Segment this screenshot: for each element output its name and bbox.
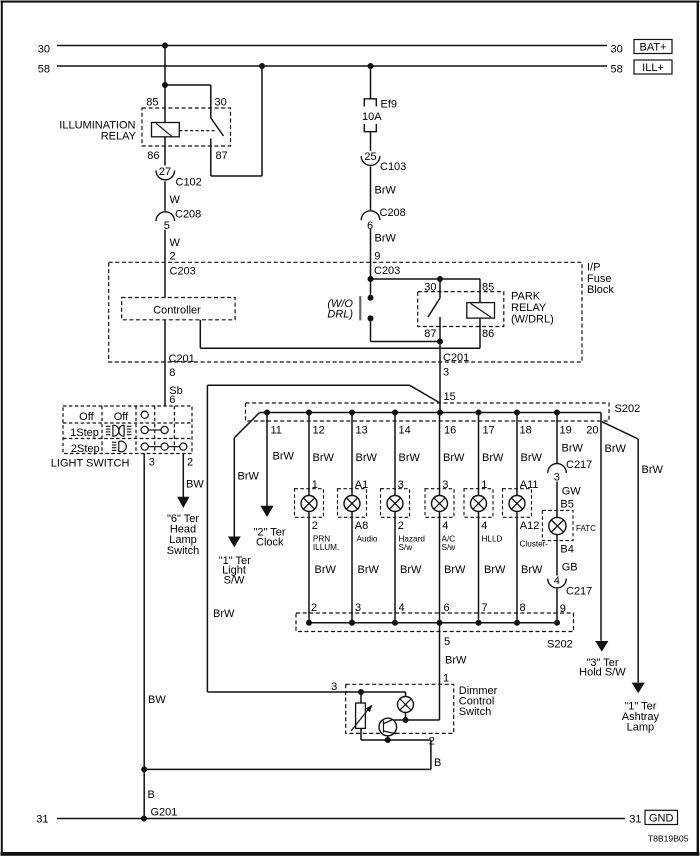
node park relay 30 <box>437 276 443 282</box>
wire bus to lamp at x352 <box>351 413 353 496</box>
svg-text:20: 20 <box>586 424 598 436</box>
wire dimmer 2 to ground bus <box>144 740 431 769</box>
wire color BW term2 <box>186 479 204 491</box>
wire color BrW clock <box>273 451 295 463</box>
svg-text:BrW: BrW <box>399 452 421 464</box>
svg-text:BW: BW <box>186 479 204 491</box>
arrow to ashtray lamp <box>632 683 645 694</box>
svg-text:4: 4 <box>554 575 560 587</box>
wire net 31 GND <box>57 818 625 820</box>
label Off row1 col2 <box>114 411 129 423</box>
svg-text:BrW: BrW <box>315 564 337 576</box>
wire color BrW col x309 <box>313 452 335 464</box>
svg-text:A/C: A/C <box>442 534 456 543</box>
svg-text:Switch: Switch <box>459 706 491 718</box>
wire color BrW col x478.5 <box>482 452 504 464</box>
label 2 Ter Clock <box>253 527 285 549</box>
wire lamp to bottom bus x517 <box>516 511 518 622</box>
node dimmer 3 <box>358 689 364 695</box>
lamp name Cluster- col x517 <box>520 539 549 548</box>
svg-text:14: 14 <box>399 424 411 436</box>
svg-text:2: 2 <box>311 602 317 614</box>
svg-text:I/P: I/P <box>587 261 600 273</box>
svg-text:A8: A8 <box>355 520 368 532</box>
relay contact lower terminal 87 <box>210 139 212 177</box>
wire lamp to node <box>405 713 407 721</box>
illumination lamp col x352 <box>344 496 360 512</box>
label 1 Ter Ashtray Lamp <box>622 701 660 734</box>
svg-text:LIGHT SWITCH: LIGHT SWITCH <box>51 457 130 469</box>
wire color BrW 2nd <box>375 233 397 245</box>
wire FATC to C217 lower <box>556 535 558 576</box>
svg-text:(W/DRL): (W/DRL) <box>511 314 554 326</box>
wire lamp to bottom bus x439.5 <box>439 511 441 622</box>
svg-text:BrW: BrW <box>642 464 664 476</box>
svg-text:GB: GB <box>562 562 578 574</box>
arrow to hold sw <box>595 641 608 652</box>
node relay branch split <box>162 82 168 88</box>
connector C103 pin 25 <box>361 151 406 173</box>
pin 6 label <box>169 394 175 406</box>
wire lamp to bottom bus x352 <box>351 511 353 622</box>
svg-text:13: 13 <box>356 424 368 436</box>
wire net 58 ILL+ <box>57 65 607 67</box>
svg-text:PRN: PRN <box>313 534 330 543</box>
svg-text:31: 31 <box>629 813 641 825</box>
pin 5 label <box>444 636 450 648</box>
pin 1 label <box>443 672 449 684</box>
bus junction dots <box>264 410 560 416</box>
wire C103 to C208 <box>370 167 372 211</box>
lamp box col x309 <box>295 489 324 518</box>
svg-text:3: 3 <box>331 681 337 693</box>
label 30 left <box>38 43 50 55</box>
label ILLUMINATION RELAY <box>59 120 136 143</box>
connector C217 pin 4 <box>548 575 593 597</box>
light switch box grid <box>63 406 192 454</box>
wire color BrW lower col x309 <box>315 564 337 576</box>
park pin 86 label <box>482 328 494 340</box>
svg-text:3: 3 <box>355 602 361 614</box>
pin label A1 col x352 <box>355 479 368 491</box>
pin label A12 col x517 <box>520 520 540 532</box>
svg-text:GW: GW <box>562 485 582 497</box>
svg-text:BrW: BrW <box>313 452 335 464</box>
wire color BrW lower col x439.5 <box>444 564 466 576</box>
wire lamp to bottom bus x395 <box>394 511 396 622</box>
svg-text:BrW: BrW <box>273 451 295 463</box>
svg-text:S/w: S/w <box>399 543 413 552</box>
svg-text:8: 8 <box>520 602 526 614</box>
svg-text:2: 2 <box>398 520 404 532</box>
lamp box col x478.5 <box>464 489 493 518</box>
pin label A8 col x352 <box>355 520 368 532</box>
svg-text:Lamp: Lamp <box>627 721 655 733</box>
wire color W 2nd <box>170 237 181 249</box>
arrow to clock <box>260 506 273 517</box>
illumination lamp col x439.5 <box>432 496 448 512</box>
pin B5 label <box>560 499 573 511</box>
wire 58 to fuse Ef9 <box>370 66 372 99</box>
svg-text:19: 19 <box>560 424 572 436</box>
pin 3 label dimmer <box>331 681 337 693</box>
label W/O DRL <box>327 298 353 321</box>
terminal box ILL+ <box>634 60 672 74</box>
wire pin20 to hold sw <box>600 413 602 641</box>
svg-text:BrW: BrW <box>444 564 466 576</box>
svg-text:30: 30 <box>38 43 50 55</box>
svg-text:C203: C203 <box>374 265 400 277</box>
svg-text:B5: B5 <box>560 499 573 511</box>
svg-text:5: 5 <box>444 636 450 648</box>
svg-text:B: B <box>434 757 441 769</box>
lamp name Hazard col x395 <box>399 534 426 552</box>
lamp box col x352 <box>338 489 367 518</box>
wire term2 BW <box>182 454 184 499</box>
wire color BrW col x517 <box>521 452 543 464</box>
svg-text:B4: B4 <box>560 543 573 555</box>
pin label 1 col x309 <box>312 479 318 491</box>
svg-text:BrW: BrW <box>356 452 378 464</box>
wire color BrW lower col x478.5 <box>484 564 506 576</box>
svg-text:4: 4 <box>442 520 448 532</box>
arrow to head lamp switch <box>177 497 189 508</box>
svg-text:C103: C103 <box>380 161 406 173</box>
svg-text:86: 86 <box>147 150 159 162</box>
contact row2 pair <box>141 426 168 433</box>
wire color BrW ashtray <box>642 464 664 476</box>
pin 9 label bottom <box>560 603 566 615</box>
label 2Step <box>71 443 100 455</box>
wire resistor bottom <box>361 728 431 740</box>
splice S202 bottom box <box>296 613 574 632</box>
svg-text:Block: Block <box>587 284 614 296</box>
wire dimmer feed to pin 15 node <box>207 385 440 692</box>
svg-text:BrW: BrW <box>482 452 504 464</box>
park relay contact 87 <box>439 317 441 342</box>
pin 2 label dimmer <box>429 736 435 748</box>
terminal 3 label <box>149 457 155 469</box>
connector C203 label left <box>170 265 196 277</box>
wire bus to lamp at x395 <box>394 413 396 496</box>
pin 85 label <box>146 97 158 109</box>
pin 86 label <box>147 150 159 162</box>
pin 9 label <box>374 251 380 263</box>
svg-text:8: 8 <box>169 367 175 379</box>
node 87 junction <box>437 339 443 345</box>
wire color BrW light sw <box>238 471 260 483</box>
icon parklamp 2Step <box>112 441 126 452</box>
terminal 2 label <box>187 457 193 469</box>
svg-text:BrW: BrW <box>358 564 380 576</box>
svg-text:S202: S202 <box>547 639 573 651</box>
svg-text:87: 87 <box>216 150 228 162</box>
lamp name PRN col x309 <box>313 534 339 552</box>
svg-text:BrW: BrW <box>213 608 235 620</box>
svg-text:30: 30 <box>611 43 623 55</box>
svg-text:BAT+: BAT+ <box>639 42 666 54</box>
drawing number T8B19B05 <box>648 833 689 843</box>
illumination lamp col x478.5 <box>471 496 487 512</box>
svg-text:RELAY: RELAY <box>511 302 547 314</box>
wire C217 to FATC <box>556 482 558 518</box>
contact row1 <box>141 411 148 418</box>
label I/P Fuse Block <box>587 261 614 296</box>
svg-text:Clock: Clock <box>256 536 284 548</box>
wire bus to lamp at x517 <box>516 413 518 496</box>
svg-text:BrW: BrW <box>443 452 465 464</box>
label 3 Ter Hold SW <box>579 657 626 679</box>
label Off row1 col1 <box>79 411 94 423</box>
wire bus to lamp at x439.5 <box>439 413 441 496</box>
svg-text:87: 87 <box>424 328 436 340</box>
connector C208 pin 5 <box>156 209 201 233</box>
svg-text:3: 3 <box>149 457 155 469</box>
pin 3 label <box>443 367 449 379</box>
svg-text:BrW: BrW <box>521 452 543 464</box>
icon headlamp 1Step <box>106 425 132 436</box>
park pin 85 label <box>482 282 494 294</box>
svg-text:C201: C201 <box>443 352 469 364</box>
fuse Ef9 <box>362 99 397 132</box>
pin label 3 col x439.5 <box>442 479 448 491</box>
pin label 4 col x478.5 <box>481 520 487 532</box>
wire color BrW dimmer <box>445 655 467 667</box>
svg-text:2: 2 <box>429 736 435 748</box>
svg-text:Off: Off <box>114 411 129 423</box>
wire W/O DRL to 87 node <box>371 341 441 343</box>
lamp name A/C col x439.5 <box>442 534 456 552</box>
wire color BrW col19 <box>562 442 584 454</box>
connector C201 left <box>169 353 195 365</box>
park relay contact blade <box>428 279 440 317</box>
svg-text:6: 6 <box>444 602 450 614</box>
svg-text:2: 2 <box>312 520 318 532</box>
label FATC <box>576 524 596 533</box>
ground G201 label <box>151 806 178 818</box>
svg-text:BrW: BrW <box>605 443 627 455</box>
pin 30 label <box>215 97 227 109</box>
wire C208 to C203 <box>370 229 372 279</box>
dimmer box <box>346 684 454 733</box>
label Dimmer Control Switch <box>459 685 498 718</box>
node on 58 at relay 87 branch <box>259 63 265 69</box>
wire pin1 corner <box>390 719 440 721</box>
label 58 left <box>38 64 50 76</box>
illumination lamp col x395 <box>387 496 403 512</box>
dimmer lamp <box>398 697 414 713</box>
lamp box col x439.5 <box>425 489 454 518</box>
svg-text:BrW: BrW <box>238 471 260 483</box>
lamp name Audio col x352 <box>357 534 378 543</box>
wire term3 BW to ground <box>143 454 145 819</box>
wire bus to lamp at x309 <box>308 413 310 496</box>
svg-text:Audio: Audio <box>357 534 378 543</box>
lamp name HLLD col x478.5 <box>482 534 503 543</box>
svg-text:30: 30 <box>215 97 227 109</box>
svg-text:12: 12 <box>313 424 325 436</box>
wire color GW <box>562 485 582 497</box>
svg-text:C201: C201 <box>169 353 195 365</box>
pin labels 11-20 <box>271 424 599 436</box>
wire to dimmer lamp <box>361 692 406 697</box>
ground node G201 <box>141 816 147 822</box>
wire color BrW lower col x395 <box>400 564 422 576</box>
wire color BrW lower col x352 <box>358 564 380 576</box>
relay contact blade <box>211 118 224 136</box>
label 58 right <box>611 64 623 76</box>
lamp box col x517 <box>503 489 532 518</box>
wire 30-line to relay coil 85 <box>164 46 166 123</box>
transistor Q1 <box>379 718 397 740</box>
bus S202 bottom line <box>307 622 557 624</box>
label 31 left <box>36 813 48 825</box>
svg-text:85: 85 <box>482 282 494 294</box>
svg-text:C102: C102 <box>176 177 202 189</box>
svg-text:BrW: BrW <box>375 185 397 197</box>
label S202 top <box>615 403 641 415</box>
svg-text:S/W: S/W <box>224 575 245 587</box>
svg-text:6: 6 <box>169 394 175 406</box>
svg-text:86: 86 <box>482 328 494 340</box>
node under lamp <box>403 717 409 723</box>
pin label 2 col x309 <box>312 520 318 532</box>
W/O DRL upper contact <box>368 279 374 301</box>
label Controller <box>153 305 201 317</box>
wire color BrW col x395 <box>399 452 421 464</box>
wire branch to relay contact 30 <box>165 85 211 118</box>
wire color BrW col x352 <box>356 452 378 464</box>
label 30 right <box>611 43 623 55</box>
wire C217 to S202 pin 9 <box>556 589 558 623</box>
svg-text:15: 15 <box>444 391 456 403</box>
svg-text:2: 2 <box>170 251 176 263</box>
FATC lamp <box>549 517 566 534</box>
node transistor emitter <box>385 737 391 743</box>
svg-text:58: 58 <box>611 64 623 76</box>
svg-text:BrW: BrW <box>562 442 584 454</box>
node C203 junction <box>368 276 374 282</box>
svg-text:Controller: Controller <box>153 305 201 317</box>
wire color B ground <box>148 789 155 801</box>
svg-text:Fuse: Fuse <box>587 273 611 285</box>
park pin 87 label <box>424 328 436 340</box>
lamp box col x395 <box>381 489 410 518</box>
svg-text:9: 9 <box>374 251 380 263</box>
node BW-B junction <box>141 766 147 772</box>
connector C217 pin 3 <box>548 459 593 483</box>
pin 87 label <box>216 150 228 162</box>
svg-text:4: 4 <box>399 602 405 614</box>
node on 58 at Ef9 branch <box>368 63 374 69</box>
svg-text:FATC: FATC <box>576 524 596 533</box>
splice S202 top box <box>246 403 610 421</box>
svg-text:ILL+: ILL+ <box>642 62 664 74</box>
svg-text:W: W <box>170 237 181 249</box>
pin label 3 col x395 <box>398 479 404 491</box>
wire color GB <box>562 562 578 574</box>
svg-text:4: 4 <box>481 520 487 532</box>
wire diag to light sw <box>234 413 259 537</box>
svg-text:BrW: BrW <box>521 564 543 576</box>
bus S202 top line <box>260 412 602 414</box>
pin label 4 col x439.5 <box>442 520 448 532</box>
svg-text:16: 16 <box>444 424 456 436</box>
arrow to light sw <box>228 537 241 548</box>
svg-text:Off: Off <box>79 411 94 423</box>
svg-text:2Step: 2Step <box>71 443 100 455</box>
label 1Step <box>70 427 99 439</box>
svg-text:G201: G201 <box>151 806 178 818</box>
svg-text:A12: A12 <box>520 520 540 532</box>
svg-text:C203: C203 <box>170 265 196 277</box>
pin 2 label <box>170 251 176 263</box>
wire C208 to controller <box>164 230 166 298</box>
svg-text:10A: 10A <box>362 111 382 123</box>
connector C201 right <box>443 352 469 364</box>
wire net 30 BAT+ <box>57 45 607 47</box>
label 1 Ter Light SW <box>219 555 251 587</box>
park relay box <box>418 292 504 327</box>
svg-text:C217: C217 <box>566 459 592 471</box>
svg-text:C217: C217 <box>566 585 592 597</box>
label S202 bottom <box>547 639 573 651</box>
svg-text:HLLD: HLLD <box>482 534 503 543</box>
svg-text:2: 2 <box>187 457 193 469</box>
wire color BrW col x439.5 <box>443 452 465 464</box>
svg-text:31: 31 <box>36 813 48 825</box>
connector C203 label right <box>374 265 400 277</box>
pin 8 label <box>169 367 175 379</box>
terminal box GND <box>645 810 678 824</box>
wire pin5 down <box>439 623 441 720</box>
wire coil 86 to controller <box>200 318 480 348</box>
svg-text:3: 3 <box>443 367 449 379</box>
wire color BrW <box>375 185 397 197</box>
svg-text:1: 1 <box>443 672 449 684</box>
illumination relay box <box>142 108 231 146</box>
wire lamp to bottom bus x309 <box>308 511 310 622</box>
FATC box <box>542 510 573 540</box>
svg-text:18: 18 <box>520 424 532 436</box>
svg-text:BrW: BrW <box>400 564 422 576</box>
W/O DRL lower contact <box>368 315 374 341</box>
svg-text:BrW: BrW <box>375 233 397 245</box>
bottom pin labels <box>311 602 526 614</box>
wire pin11 to clock <box>266 413 268 507</box>
svg-text:C208: C208 <box>380 207 406 219</box>
wire fuse to C103 <box>370 132 372 151</box>
bottom bus dots <box>306 620 560 626</box>
wire 87 to S202 pin 15 <box>439 342 441 413</box>
variable resistor R1 <box>351 692 373 731</box>
wire 87 to net 58 <box>211 66 262 176</box>
wire color BrW hold <box>605 443 627 455</box>
node on 30 at illumination relay feed <box>162 43 168 49</box>
svg-text:27: 27 <box>159 166 171 178</box>
pin 15 label <box>444 391 456 403</box>
svg-text:BrW: BrW <box>445 655 467 667</box>
svg-text:Hold S/W: Hold S/W <box>579 667 626 679</box>
svg-text:Hazard: Hazard <box>399 534 426 543</box>
svg-text:S202: S202 <box>615 403 641 415</box>
contact row3 triple <box>141 443 187 450</box>
illumination lamp col x517 <box>509 496 525 512</box>
svg-text:C208: C208 <box>175 209 201 221</box>
svg-text:17: 17 <box>483 424 495 436</box>
svg-text:1Step: 1Step <box>70 427 99 439</box>
svg-text:T8B19B05: T8B19B05 <box>648 833 689 843</box>
